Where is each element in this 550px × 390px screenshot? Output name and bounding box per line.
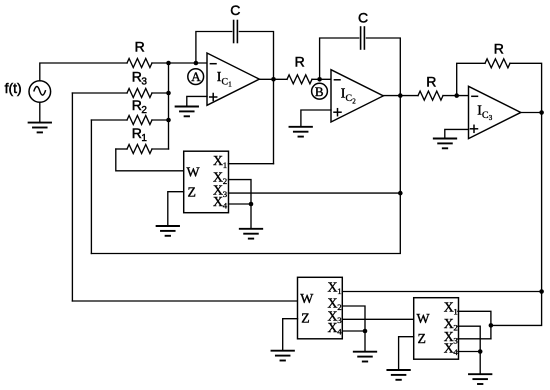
node dot IC1 output (271, 77, 276, 82)
resistor R (IC1 to IC2) (287, 75, 312, 84)
svg-text:2: 2 (352, 97, 356, 105)
svg-text:1: 1 (141, 133, 147, 144)
wire IC2 output row (383, 95, 418, 97)
svg-text:2: 2 (223, 176, 227, 186)
wire M2 Z to ground (283, 319, 298, 351)
wire M1 X1 to IC1 output vertical (229, 163, 274, 165)
svg-text:2: 2 (141, 105, 147, 116)
node dot feedback tap IC2 (317, 77, 322, 82)
svg-text:X: X (444, 300, 454, 315)
svg-text:C: C (346, 93, 353, 104)
svg-text:3: 3 (141, 77, 147, 88)
ground at IC1 plus (176, 107, 198, 117)
source f(t) (5, 80, 51, 102)
node dot M3 X1X3-X2 junction (489, 323, 494, 328)
node dot M2 X1 junction (539, 289, 544, 294)
svg-text:A: A (191, 69, 201, 84)
capacitor C (IC2 feedback) (361, 27, 365, 49)
svg-text:C: C (482, 110, 489, 121)
svg-text:2: 2 (453, 323, 457, 333)
wire f(t) bottom to ground (39, 102, 41, 122)
wire R to IC2 minus (312, 78, 331, 80)
wire IC1 output row (259, 78, 287, 80)
wire IC1 output down to M1 X1 (273, 79, 275, 163)
node dot IC2 output (398, 93, 403, 98)
resistor R (IC2 to IC3) (418, 91, 443, 100)
wire M2 X2 right and down (342, 306, 365, 331)
svg-text:X: X (328, 279, 338, 294)
svg-text:1: 1 (228, 81, 232, 89)
svg-text:Z: Z (188, 184, 196, 199)
wire M2 X1 long line to IC3 output vertical (342, 291, 541, 293)
ground at M2 Z (272, 351, 294, 361)
svg-text:C: C (358, 9, 368, 25)
multiplier M2 box (298, 277, 343, 339)
wire R1 right to bus (152, 148, 169, 150)
svg-text:R: R (494, 40, 504, 56)
wire R3 left vertical down (71, 93, 73, 301)
svg-text:3: 3 (489, 114, 493, 122)
resistor R1 (127, 145, 152, 154)
svg-text:1: 1 (223, 160, 227, 170)
wire M1 Z to ground (168, 192, 184, 226)
wire M2 X4 (342, 330, 365, 332)
node A (188, 69, 204, 85)
wire M1 X4 (229, 203, 252, 205)
wire M3 Z to ground (399, 337, 414, 370)
svg-text:R: R (132, 69, 142, 85)
svg-text:R: R (132, 125, 142, 141)
wire M3 X4 down to ground (479, 352, 481, 375)
multiplier M1 box (184, 151, 229, 213)
resistor R (input) (127, 59, 152, 68)
multiplier M3 box (414, 298, 459, 360)
resistor R (IC3 feedback) (485, 59, 510, 68)
wire cap right to IC2 output vertical (366, 38, 400, 96)
svg-text:1: 1 (337, 286, 341, 296)
wire cap C right to output vertical (239, 32, 273, 80)
svg-text:4: 4 (223, 201, 228, 211)
ground at M3 Z (387, 370, 409, 380)
svg-text:R: R (132, 97, 142, 113)
node dot bus-R2 (166, 118, 171, 123)
ground at M3 X4 (469, 374, 491, 384)
svg-text:X: X (444, 340, 454, 355)
svg-text:W: W (187, 165, 200, 180)
wire R2 left vertical down (90, 120, 92, 254)
svg-text:X: X (213, 153, 223, 168)
wire R2 left lead (91, 119, 127, 121)
node dot M1 X3 junction (398, 191, 403, 196)
wire IC2 plus input to ground (301, 110, 331, 127)
wire feedback R right and down to IC3 output (510, 63, 542, 112)
input bus vertical (168, 63, 170, 149)
node dot IC3 output (539, 110, 544, 115)
wire R3 left lead (72, 92, 127, 94)
node dot bus-R (166, 61, 171, 66)
svg-text:C: C (222, 76, 229, 87)
node dot bus-R3 (166, 91, 171, 96)
svg-text:W: W (417, 311, 430, 326)
ground at IC2 plus (290, 127, 312, 137)
svg-text:X: X (328, 320, 338, 335)
node dot M3 X4 corner (478, 349, 483, 354)
svg-text:R: R (426, 74, 436, 90)
svg-text:B: B (315, 84, 324, 99)
resistor R3 (127, 89, 152, 98)
svg-text:2: 2 (337, 302, 341, 312)
wire IC3 output vertical down (491, 113, 542, 326)
wire IC2 output down then left to R2 vertical (91, 96, 400, 254)
ground at M1 Z (157, 226, 179, 236)
wire R3 right to bus (152, 92, 169, 94)
node dot M1 X2-X4 (249, 202, 254, 207)
svg-text:C: C (230, 2, 240, 18)
wire R1 left lead (116, 148, 127, 150)
wire M3 X2 right and down to X4 (458, 326, 480, 351)
wire IC3 output (521, 112, 542, 114)
wire IC3 feedback up (457, 63, 485, 95)
wire IC2 feedback up and over (320, 38, 359, 79)
svg-text:Z: Z (301, 311, 309, 326)
svg-text:X: X (213, 194, 223, 209)
wire M2 X3 to M3 W (342, 318, 413, 320)
svg-text:3: 3 (223, 189, 228, 199)
svg-text:3: 3 (337, 315, 342, 325)
wire M1 X3 to IC2 output vertical (229, 192, 401, 194)
wire R2 right to bus (152, 119, 169, 121)
capacitor C (IC1 feedback) (234, 21, 238, 43)
ground at M2 X4 (354, 352, 376, 362)
svg-text:3: 3 (453, 336, 458, 346)
wire R to IC3 minus (443, 95, 469, 97)
wire f(t) top to row1 (40, 63, 127, 81)
wire R1 left down to W of M1 (116, 149, 184, 171)
svg-text:4: 4 (337, 327, 342, 337)
resistor R2 (127, 116, 152, 125)
wire R to bus (152, 62, 207, 64)
ground at IC3 plus (434, 139, 456, 149)
wire M1 X4 down to ground (250, 204, 252, 229)
ground at M1 X4 (240, 229, 262, 239)
svg-text:R: R (295, 54, 305, 70)
op-amp U1 (207, 53, 259, 105)
node dot M2 X2-X4 (363, 329, 368, 334)
op-amp U3 (469, 86, 521, 138)
wire IC3 plus input to ground (445, 129, 469, 138)
wire M2 X4 down to ground (364, 331, 366, 352)
node dot IC3 minus junction (454, 93, 459, 98)
node dot feedback tap IC1 (194, 61, 199, 66)
svg-text:f(t): f(t) (5, 80, 22, 96)
svg-text:W: W (300, 291, 313, 306)
op-amp U2 (331, 70, 383, 122)
wire M3 X1 right and down to X3 (458, 311, 491, 339)
wire M3 X4 (458, 351, 480, 353)
node B (312, 83, 328, 99)
svg-text:1: 1 (453, 306, 457, 316)
wire IC1 plus input to ground (187, 96, 207, 106)
svg-text:Z: Z (418, 331, 426, 346)
wire IC1 feedback up and over (196, 32, 232, 64)
wire M1 X2 right and down (229, 180, 252, 204)
ground under f(t) (29, 123, 51, 133)
wire M3 X3 (458, 338, 491, 340)
svg-text:R: R (135, 39, 145, 55)
wire W line from R3 vertical to M2 (72, 300, 297, 302)
